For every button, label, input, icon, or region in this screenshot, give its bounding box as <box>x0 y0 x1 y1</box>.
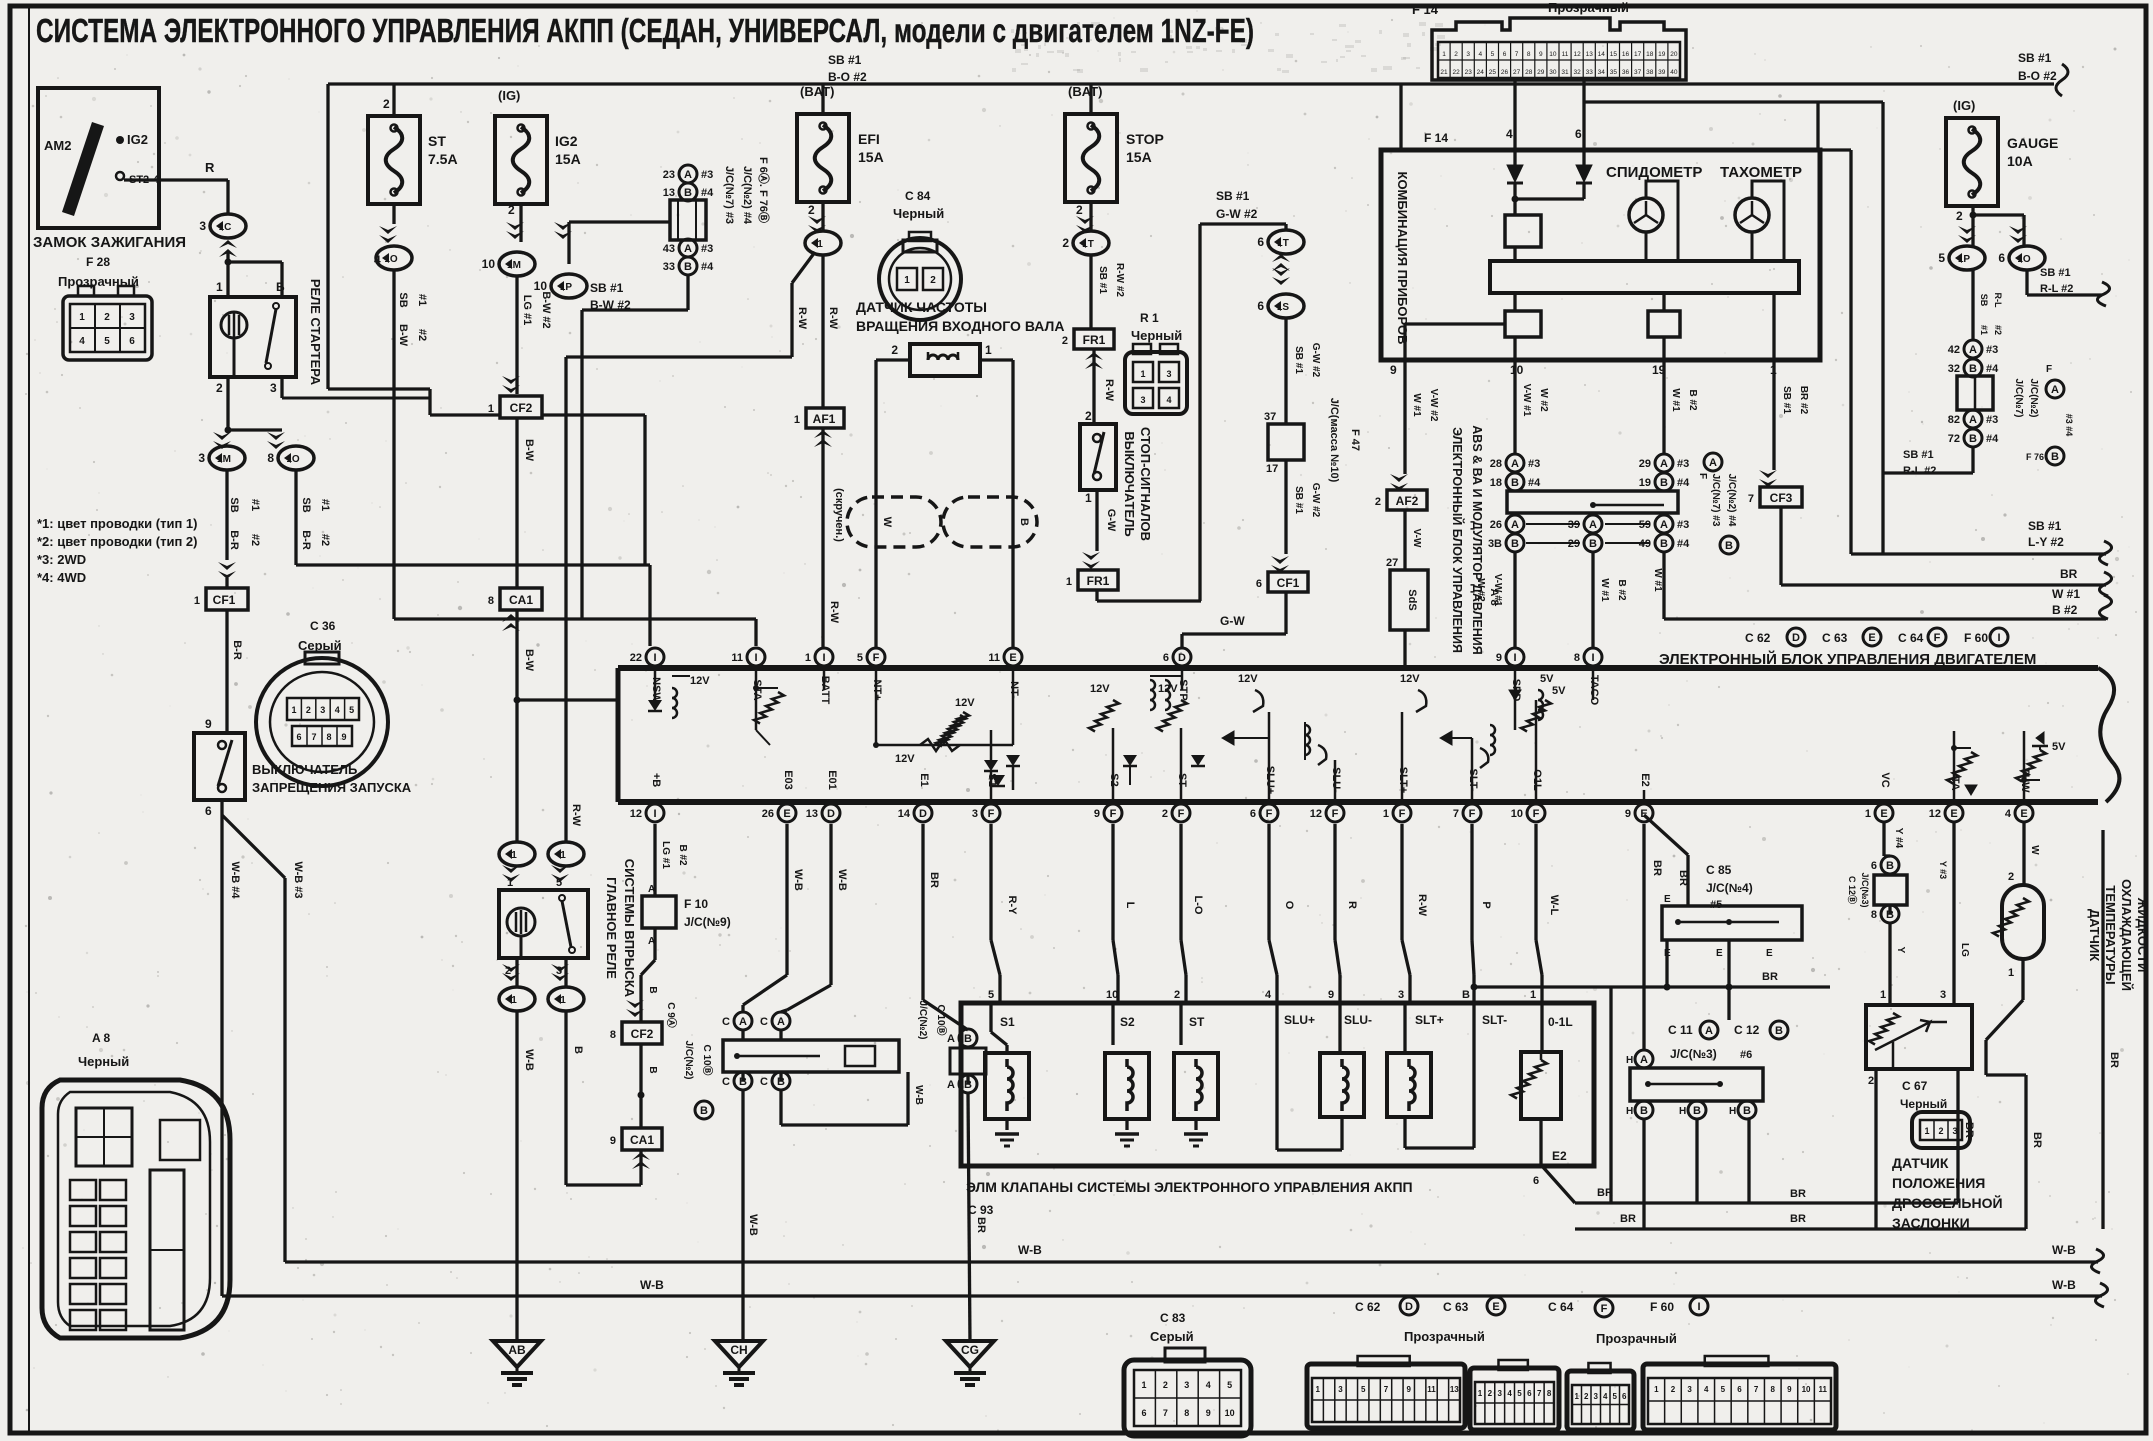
svg-text:37: 37 <box>1264 411 1276 423</box>
svg-text:7.5A: 7.5A <box>428 151 458 167</box>
svg-text:I: I <box>1997 632 2000 644</box>
svg-text:1: 1 <box>216 280 223 294</box>
svg-text:10A: 10A <box>2007 153 2033 169</box>
svg-text:6: 6 <box>1503 51 1507 58</box>
svg-text:9: 9 <box>341 732 346 742</box>
junction connector captions <box>723 157 771 225</box>
svg-text:A: A <box>1660 519 1668 531</box>
svg-text:B: B <box>1660 538 1668 550</box>
svg-text:ЖИДКОСТИ: ЖИДКОСТИ <box>2135 897 2150 973</box>
svg-text:R-L: R-L <box>1993 293 2003 308</box>
svg-text:C 11: C 11 <box>1668 1023 1693 1037</box>
svg-text:(BAT): (BAT) <box>1068 84 1102 99</box>
connector C36 (Серый) <box>256 619 388 786</box>
connector A8 (Черный) <box>42 1031 230 1338</box>
connector CF2 (1) <box>488 396 542 418</box>
svg-text:C 63: C 63 <box>1443 1300 1469 1314</box>
throttle sensor caption <box>1892 1155 2003 1231</box>
wire VC to JC <box>1847 822 1907 1005</box>
JC circles row1 <box>1490 454 1690 491</box>
svg-text:C 10Ⓑ: C 10Ⓑ <box>935 1004 948 1035</box>
svg-text:SB #1: SB #1 <box>2028 519 2062 533</box>
wire to SPD pin <box>1475 552 1515 647</box>
svg-text:1: 1 <box>79 312 85 323</box>
svg-text:7: 7 <box>1384 1385 1389 1394</box>
svg-text:W-B #3: W-B #3 <box>292 861 304 898</box>
svg-text:1: 1 <box>1865 808 1871 820</box>
svg-text:2: 2 <box>1076 203 1083 217</box>
svg-text:40: 40 <box>1670 69 1678 76</box>
svg-text:2: 2 <box>1488 1389 1493 1398</box>
svg-text:34: 34 <box>1598 69 1606 76</box>
svg-text:1O: 1O <box>286 454 300 465</box>
svg-text:10: 10 <box>1106 989 1118 1001</box>
cluster feed drop <box>1399 84 1402 150</box>
svg-text:C 83: C 83 <box>1160 1311 1186 1325</box>
JC No2 circles A <box>722 1012 790 1040</box>
svg-text:2: 2 <box>383 97 390 111</box>
svg-text:W-B: W-B <box>747 1214 759 1236</box>
svg-text:7: 7 <box>1754 1385 1759 1394</box>
solenoid labels <box>1000 1013 1573 1029</box>
node 1C oval <box>199 214 246 257</box>
wire 72B to L-Y <box>1883 447 1973 554</box>
svg-text:IG2: IG2 <box>127 132 148 147</box>
svg-text:РЕЛЕ СТАРТЕРА: РЕЛЕ СТАРТЕРА <box>308 279 323 386</box>
svg-text:F 28: F 28 <box>86 255 110 269</box>
svg-text:12V: 12V <box>1090 683 1110 695</box>
svg-text:6: 6 <box>1257 235 1264 249</box>
wire JC No2 branch <box>781 1072 924 1125</box>
svg-text:ДАТЧИК: ДАТЧИК <box>1892 1155 1949 1171</box>
svg-text:15A: 15A <box>1126 149 1152 165</box>
svg-text:GAUGE: GAUGE <box>2007 135 2058 151</box>
svg-text:E2: E2 <box>1552 1149 1567 1163</box>
svg-text:O: O <box>1283 901 1295 910</box>
title <box>36 12 1254 49</box>
svg-text:1: 1 <box>1066 576 1072 588</box>
JC C10 circles <box>917 1001 986 1093</box>
svg-text:J/C(№7) #3: J/C(№7) #3 <box>1710 474 1721 527</box>
svg-text:C 64: C 64 <box>1548 1300 1574 1314</box>
svg-text:#2: #2 <box>1993 325 2003 335</box>
JC No2 circles B <box>722 1072 790 1090</box>
svg-text:ST: ST <box>428 133 446 149</box>
node 1T cluster oval <box>1257 224 1304 285</box>
svg-text:I: I <box>1591 652 1594 664</box>
svg-text:C 93: C 93 <box>968 1203 994 1217</box>
svg-text:2: 2 <box>1454 51 1458 58</box>
svg-text:CG: CG <box>961 1343 979 1357</box>
svg-text:C 12Ⓑ: C 12Ⓑ <box>1847 876 1858 904</box>
main relay caption <box>604 859 637 998</box>
svg-text:Прозрачный: Прозрачный <box>1548 0 1629 15</box>
wire ST fuse to STA <box>374 204 428 619</box>
svg-text:5: 5 <box>1491 51 1495 58</box>
ground AB <box>493 1341 541 1385</box>
svg-text:30: 30 <box>1549 69 1557 76</box>
svg-text:8: 8 <box>1771 1385 1776 1394</box>
svg-text:B: B <box>1511 477 1519 489</box>
svg-text:R-L #2: R-L #2 <box>1903 465 1936 477</box>
svg-text:F: F <box>1266 808 1273 820</box>
svg-text:72: 72 <box>1948 433 1960 445</box>
wire R-W to main relay <box>566 357 582 843</box>
cluster block left <box>1405 293 1541 360</box>
svg-text:6: 6 <box>1533 1175 1539 1187</box>
svg-text:3: 3 <box>1338 1385 1343 1394</box>
wire G-W lower <box>1097 590 1201 601</box>
svg-text:L: L <box>1124 902 1136 909</box>
park/neutral position switch (ВЫКЛЮЧАТЕЛЬ ЗАПРЕЩЕНИЯ ЗАПУСКА) <box>194 733 245 800</box>
connector R1 (Черный) <box>1125 311 1187 414</box>
JC No3 B pins <box>1626 1101 1756 1119</box>
svg-text:*1: цвет проводки (тип 1): *1: цвет проводки (тип 1) <box>37 516 197 531</box>
svg-text:22: 22 <box>630 652 642 664</box>
svg-text:2: 2 <box>1162 808 1168 820</box>
wire AF2 to SPS <box>1405 510 1422 570</box>
svg-text:G-W: G-W <box>1220 614 1245 628</box>
wire cluster 9 to AF2 <box>1390 360 1439 491</box>
svg-text:6: 6 <box>1871 860 1877 872</box>
svg-text:A: A <box>1511 458 1519 470</box>
svg-text:B #2: B #2 <box>1616 579 1627 601</box>
svg-text:1: 1 <box>1140 369 1145 379</box>
svg-text:B: B <box>1969 433 1977 445</box>
svg-text:B-W: B-W <box>523 439 535 462</box>
svg-text:SB #1: SB #1 <box>1216 189 1250 203</box>
svg-text:BR: BR <box>2108 1052 2120 1068</box>
wire STOP to 1T <box>1062 203 1109 255</box>
svg-text:(скручен.): (скручен.) <box>833 488 845 542</box>
svg-text:26: 26 <box>1501 69 1509 76</box>
svg-text:IG2: IG2 <box>555 133 578 149</box>
svg-text:F 6Ⓐ. F 76Ⓑ: F 6Ⓐ. F 76Ⓑ <box>757 157 771 223</box>
connector CA1 (9) <box>610 1128 662 1150</box>
svg-text:SB: SB <box>300 497 312 512</box>
svg-text:А 8: А 8 <box>1488 588 1500 605</box>
wire EFI branch R-W <box>566 252 815 357</box>
solenoid box caption <box>966 1179 1413 1217</box>
input shaft speed sensor <box>891 343 992 376</box>
svg-text:8: 8 <box>326 732 331 742</box>
svg-text:R: R <box>205 160 215 175</box>
svg-text:1: 1 <box>1530 989 1536 1001</box>
svg-text:LG #1: LG #1 <box>521 295 533 326</box>
svg-text:B: B <box>1640 1105 1648 1117</box>
svg-text:38: 38 <box>1646 69 1654 76</box>
svg-text:2: 2 <box>891 343 898 357</box>
connector AF2 (2) <box>1375 490 1427 510</box>
svg-text:31: 31 <box>1561 69 1569 76</box>
svg-text:W #1: W #1 <box>1670 388 1681 412</box>
svg-text:V-W #1: V-W #1 <box>1521 384 1532 417</box>
svg-text:4: 4 <box>1478 51 1482 58</box>
svg-text:1O: 1O <box>2017 254 2031 265</box>
svg-text:G-W #2: G-W #2 <box>1310 343 1321 378</box>
ECU top pins <box>630 648 1602 706</box>
svg-text:C 64: C 64 <box>1898 631 1924 645</box>
svg-text:SLU-: SLU- <box>1344 1013 1372 1027</box>
connector C67 (Черный) <box>1900 1079 1970 1148</box>
svg-text:32: 32 <box>1573 69 1581 76</box>
svg-text:#3: #3 <box>1986 414 1998 426</box>
svg-text:1: 1 <box>507 877 513 889</box>
svg-text:12V: 12V <box>1400 673 1420 685</box>
svg-text:AB: AB <box>508 1343 526 1357</box>
svg-text:SB #1: SB #1 <box>1781 386 1792 414</box>
svg-text:6: 6 <box>129 336 135 347</box>
svg-text:3: 3 <box>1497 1389 1502 1398</box>
svg-text:1: 1 <box>1654 1385 1659 1394</box>
svg-text:11: 11 <box>1818 1385 1827 1394</box>
svg-text:SB #1: SB #1 <box>1293 486 1304 514</box>
svg-text:B: B <box>1462 989 1470 1001</box>
svg-text:ЗАСЛОНКИ: ЗАСЛОНКИ <box>1892 1215 1970 1231</box>
solenoid SLU <box>1277 1004 1364 1150</box>
svg-text:B-W: B-W <box>397 324 409 347</box>
wire GAUGE to 1P 1O <box>1938 206 2045 270</box>
engine ECU box (ЭЛЕКТРОННЫЙ БЛОК УПРАВЛЕНИЯ ДВИГАТЕЛЕМ) <box>618 668 2119 802</box>
solenoid S1 <box>985 1004 1029 1146</box>
svg-text:F 10: F 10 <box>684 897 708 911</box>
svg-text:5: 5 <box>1517 1389 1522 1398</box>
svg-text:D: D <box>919 808 927 820</box>
svg-text:SB #1: SB #1 <box>828 53 862 67</box>
park/neutral switch caption <box>205 762 412 818</box>
wire 49B down <box>1652 552 2112 619</box>
svg-text:F: F <box>1178 808 1185 820</box>
svg-text:J/C(№2) #4: J/C(№2) #4 <box>741 166 753 225</box>
wire AF1 to BATT pin <box>814 428 845 647</box>
svg-text:13: 13 <box>1586 51 1594 58</box>
svg-text:ГЛАВНОЕ РЕЛЕ: ГЛАВНОЕ РЕЛЕ <box>604 877 619 979</box>
svg-text:J/C(№2): J/C(№2) <box>2028 379 2039 418</box>
svg-text:3: 3 <box>1466 51 1470 58</box>
svg-text:F: F <box>1110 808 1117 820</box>
svg-text:EFI: EFI <box>858 131 880 147</box>
ABS block caption <box>1450 425 1500 654</box>
svg-text:1: 1 <box>1478 1389 1483 1398</box>
svg-text:9: 9 <box>205 717 212 731</box>
svg-text:#4: #4 <box>701 187 714 199</box>
svg-text:#1: #1 <box>1979 325 1989 335</box>
wire +B to JC No9 <box>648 824 688 896</box>
svg-text:A: A <box>947 1033 955 1045</box>
svg-text:W-B: W-B <box>2052 1243 2076 1257</box>
wire cluster 19 to JC <box>1664 360 1698 454</box>
svg-text:CA1: CA1 <box>630 1133 654 1147</box>
fuse GAUGE 10A <box>1946 98 2058 206</box>
svg-text:4: 4 <box>1506 127 1513 141</box>
svg-text:1: 1 <box>904 275 910 286</box>
svg-text:F: F <box>1601 1303 1608 1315</box>
svg-text:J/C(№2) #4: J/C(№2) #4 <box>1726 474 1737 527</box>
svg-text:5: 5 <box>104 336 110 347</box>
wire temp sensor down <box>1986 959 2043 1229</box>
svg-text:A: A <box>2051 384 2059 396</box>
svg-text:L-Y #2: L-Y #2 <box>2028 535 2064 549</box>
svg-text:#6: #6 <box>1740 1049 1752 1061</box>
svg-text:I: I <box>653 808 656 820</box>
ground CH <box>715 1341 763 1385</box>
wire CF2 to CA1 <box>517 418 535 588</box>
wire W-B #4 from switch <box>222 800 241 1296</box>
temp sensor caption <box>2087 879 2150 991</box>
ECU internal circuitry <box>648 668 2066 802</box>
svg-text:F: F <box>1934 632 1941 644</box>
svg-text:39: 39 <box>1658 69 1666 76</box>
svg-text:8: 8 <box>1184 1408 1189 1418</box>
svg-text:3: 3 <box>129 312 135 323</box>
svg-text:18: 18 <box>1646 51 1654 58</box>
svg-text:SB: SB <box>228 497 240 512</box>
battery feed right label <box>2018 51 2068 96</box>
wire 1P down <box>1973 270 2003 340</box>
svg-text:9: 9 <box>1328 989 1334 1001</box>
svg-text:SdS: SdS <box>1406 589 1418 610</box>
ground CG <box>946 1341 994 1385</box>
svg-text:15A: 15A <box>858 149 884 165</box>
svg-text:9: 9 <box>1539 51 1543 58</box>
wire diodes junction <box>1512 183 1585 215</box>
svg-text:ST: ST <box>1189 1015 1205 1029</box>
svg-text:#2: #2 <box>249 534 261 546</box>
bottom connector codes <box>1355 1297 1708 1317</box>
svg-text:СПИДОМЕТР: СПИДОМЕТР <box>1606 164 1702 181</box>
svg-text:SLU+: SLU+ <box>1284 1013 1315 1027</box>
svg-text:11: 11 <box>1427 1385 1436 1394</box>
connector bottom 2 <box>1470 1360 1559 1430</box>
svg-text:#2: #2 <box>319 534 331 546</box>
svg-text:SB #1: SB #1 <box>1903 449 1934 461</box>
svg-text:3: 3 <box>1166 369 1171 379</box>
svg-text:15: 15 <box>1610 51 1618 58</box>
wire IG2 to 1M 1P <box>482 203 670 298</box>
svg-text:R-W: R-W <box>570 804 582 827</box>
svg-text:B: B <box>647 1066 658 1073</box>
svg-text:2: 2 <box>1174 989 1180 1001</box>
svg-text:A: A <box>739 1016 747 1028</box>
svg-text:1: 1 <box>805 652 811 664</box>
svg-text:R-W: R-W <box>1416 894 1428 917</box>
svg-text:B-W #2: B-W #2 <box>590 298 631 312</box>
svg-text:29: 29 <box>1639 458 1651 470</box>
svg-text:C: C <box>722 1076 730 1088</box>
svg-text:1: 1 <box>1315 1385 1320 1394</box>
svg-text:F: F <box>873 652 880 664</box>
svg-text:10: 10 <box>1802 1385 1811 1394</box>
svg-text:B: B <box>1743 1105 1751 1117</box>
svg-text:4: 4 <box>2005 808 2012 820</box>
svg-text:33: 33 <box>663 261 675 273</box>
svg-text:I: I <box>653 652 656 664</box>
wire cluster 10 to JC <box>1515 360 1549 454</box>
svg-text:2: 2 <box>1868 1075 1874 1087</box>
svg-text:1: 1 <box>194 595 200 607</box>
svg-text:1: 1 <box>817 239 823 250</box>
stop lamp switch (ВЫКЛЮЧАТЕЛЬ СТОП-СИГНАЛОВ) <box>1080 424 1116 490</box>
svg-text:КОМБИНАЦИЯ ПРИБОРОВ: КОМБИНАЦИЯ ПРИБОРОВ <box>1395 172 1410 345</box>
svg-text:2: 2 <box>1584 1392 1589 1401</box>
svg-text:6: 6 <box>296 732 301 742</box>
wire IG2 down to CF2 <box>502 276 552 394</box>
svg-text:35: 35 <box>1610 69 1618 76</box>
svg-text:(IG): (IG) <box>1953 98 1975 113</box>
svg-text:28: 28 <box>1525 69 1533 76</box>
svg-text:25: 25 <box>1489 69 1497 76</box>
svg-text:ДРОССЕЛЬНОЙ: ДРОССЕЛЬНОЙ <box>1892 1194 2003 1211</box>
svg-text:#3: #3 <box>1528 458 1540 470</box>
svg-text:SB #1: SB #1 <box>2040 267 2071 279</box>
svg-text:*4: 4WD: *4: 4WD <box>37 570 86 585</box>
svg-text:11: 11 <box>988 652 1000 664</box>
wire JC No2 to ground CH <box>743 1090 759 1343</box>
svg-text:1: 1 <box>1442 51 1446 58</box>
svg-text:BR: BR <box>1651 860 1663 876</box>
svg-text:3: 3 <box>1940 989 1946 1001</box>
svg-text:29: 29 <box>1537 69 1545 76</box>
svg-text:A: A <box>1969 414 1977 426</box>
svg-text:19: 19 <box>1639 477 1651 489</box>
svg-text:R: R <box>1346 901 1358 909</box>
svg-text:9: 9 <box>1787 1385 1792 1394</box>
svg-text:SLT+: SLT+ <box>1415 1013 1444 1027</box>
wire SB L-Y <box>1851 150 2112 565</box>
svg-text:ВЫКЛЮЧАТЕЛЬ: ВЫКЛЮЧАТЕЛЬ <box>252 762 357 777</box>
svg-text:SB #1: SB #1 <box>590 281 624 295</box>
svg-text:J/C(№3): J/C(№3) <box>1860 872 1870 907</box>
wire stop switch to FR1 lower <box>1082 490 1117 569</box>
svg-text:W-B: W-B <box>792 869 804 891</box>
cluster feed wires <box>1424 80 1883 473</box>
instrument cluster box <box>1381 150 1851 360</box>
svg-text:3B: 3B <box>1488 538 1502 550</box>
svg-text:F 76: F 76 <box>2026 452 2044 462</box>
svg-text:1: 1 <box>291 705 296 715</box>
svg-text:#4: #4 <box>1677 538 1690 550</box>
svg-text:BR: BR <box>928 872 940 888</box>
svg-text:D: D <box>827 808 835 820</box>
coolant temperature sensor <box>1993 885 2044 979</box>
svg-text:VC: VC <box>1879 772 1891 787</box>
svg-text:ТЕМПЕРАТУРЫ: ТЕМПЕРАТУРЫ <box>2103 885 2118 984</box>
svg-text:5V: 5V <box>2052 741 2066 753</box>
solenoid valves box <box>961 1003 1594 1166</box>
solenoid ST <box>1174 1004 1218 1146</box>
svg-text:3: 3 <box>270 381 277 395</box>
cluster pin labels <box>1390 363 1777 377</box>
svg-text:SB: SB <box>1979 294 1989 307</box>
JC caption right <box>1697 453 1738 554</box>
svg-text:B-W: B-W <box>523 649 535 672</box>
svg-text:F: F <box>988 808 995 820</box>
tachometer <box>1720 164 1802 261</box>
svg-text:2: 2 <box>1938 1126 1943 1136</box>
wire G-W type2 loop <box>1200 189 1286 628</box>
svg-text:BR: BR <box>2031 1132 2043 1148</box>
svg-text:СИСТЕМЫ ВПРЫСКА: СИСТЕМЫ ВПРЫСКА <box>622 859 637 998</box>
svg-text:37: 37 <box>1634 69 1642 76</box>
wire HB2 down <box>1695 1119 1698 1203</box>
svg-text:8: 8 <box>1547 1389 1552 1398</box>
wire VTA to throttle <box>1938 822 1970 1005</box>
svg-text:ПОЛОЖЕНИЯ: ПОЛОЖЕНИЯ <box>1892 1175 1985 1191</box>
main relay lower ovals <box>499 958 584 1011</box>
svg-text:V-W: V-W <box>1411 529 1422 548</box>
svg-text:82: 82 <box>1948 414 1960 426</box>
svg-text:1P: 1P <box>560 282 573 293</box>
